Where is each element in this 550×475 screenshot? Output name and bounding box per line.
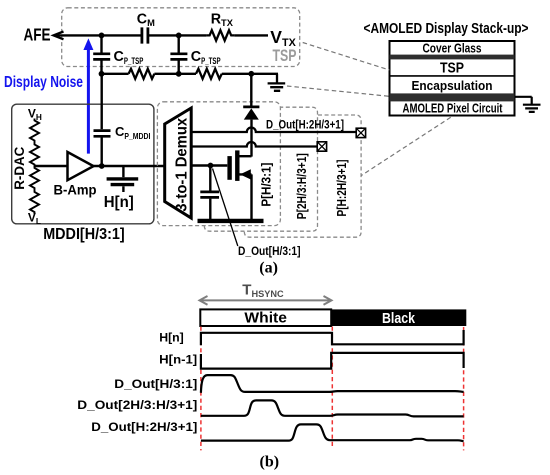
ground G1	[268, 74, 286, 91]
TSP dashed box	[62, 8, 300, 67]
node A (AFE line / C_P_TSP1)	[99, 33, 105, 39]
svg-text:(b): (b)	[260, 453, 280, 470]
svg-text:D_Out[H:2H/3+1]: D_Out[H:2H/3+1]	[91, 420, 197, 434]
dashed link ground to stack	[287, 86, 389, 96]
svg-text:D_Out[H:2H/3+1]: D_Out[H:2H/3+1]	[266, 119, 344, 131]
node C (noise row left)	[99, 71, 105, 77]
wire noise row 2	[154, 73, 196, 75]
svg-text:R-DAC: R-DAC	[12, 146, 27, 189]
bar White	[200, 309, 331, 326]
node D (noise row mid)	[176, 71, 182, 77]
trace D_Out[2H/3:H/3+1]	[201, 400, 464, 416]
capacitor C_P_MDDI	[100, 74, 102, 129]
svg-text:Black: Black	[382, 310, 416, 327]
svg-text:P[H/3:1]: P[H/3:1]	[260, 163, 274, 207]
trace D_Out[H/3:1]	[201, 375, 464, 393]
ground rail	[198, 219, 264, 223]
capacitor C_P_TSP 2	[177, 35, 179, 52]
svg-text:3-to-1 Demux: 3-to-1 Demux	[174, 118, 191, 212]
svg-text:B-Amp: B-Amp	[54, 182, 97, 198]
svg-text:D_Out[H/3:1]: D_Out[H/3:1]	[114, 377, 197, 391]
trace H[n]	[201, 330, 464, 345]
dashed link stack to pixel box	[361, 117, 450, 175]
red timing line 1	[200, 327, 202, 451]
svg-text:TSP: TSP	[440, 61, 464, 77]
MDDI box	[12, 104, 154, 224]
svg-text:D_Out[2H/3:H/3+1]: D_Out[2H/3:H/3+1]	[77, 398, 197, 412]
red timing line 2	[331, 327, 333, 448]
blue noise arrow	[87, 49, 90, 154]
svg-text:<AMOLED Display Stack-up>: <AMOLED Display Stack-up>	[364, 21, 529, 37]
pin X2	[317, 142, 326, 151]
node E (noise row right / diode top)	[248, 71, 254, 77]
wire noise row 3	[222, 73, 278, 75]
dashed box channel 1	[157, 102, 280, 226]
transistor M1	[227, 156, 231, 180]
wire demux out3 (gate line)	[191, 164, 227, 166]
layer separator	[390, 75, 515, 77]
ground G2 (stack)	[515, 97, 541, 112]
dashed box channel 3	[244, 115, 361, 237]
node F (B-Amp out)	[99, 163, 105, 169]
trace D_Out[H:2H/3+1]	[201, 424, 464, 441]
wire noise row 1	[102, 73, 129, 75]
svg-text:Encapsulation: Encapsulation	[412, 79, 493, 93]
resistor R-DAC chain	[30, 119, 39, 167]
capacitor storage	[209, 166, 211, 191]
arrowhead to AFE	[54, 32, 64, 40]
dashed box channel 2	[204, 107, 317, 231]
demux U1 3-to-1	[165, 108, 192, 218]
wire demux out2 with hop	[191, 142, 317, 147]
wire demux out1 with hop	[191, 128, 356, 133]
pointer line D_Out[H/3:1]	[213, 169, 238, 247]
resistor R_TX	[206, 30, 234, 40]
svg-text:P[H:2H/3+1]: P[H:2H/3+1]	[335, 160, 349, 217]
svg-text:MDDI[H/3:1]: MDDI[H/3:1]	[43, 226, 125, 243]
trace H[n-1]	[201, 353, 464, 369]
svg-text:AFE: AFE	[24, 25, 51, 45]
svg-text:Cover Glass: Cover Glass	[423, 41, 482, 55]
resistor ITO 2	[196, 69, 222, 79]
svg-text:H[n]: H[n]	[104, 194, 134, 211]
svg-text:H[n-1]: H[n-1]	[159, 352, 197, 366]
pin X1	[356, 128, 365, 137]
red timing line 3	[463, 327, 465, 450]
capacitor C_M	[142, 27, 148, 43]
resistor ITO 1	[129, 69, 155, 79]
node G (gate line / cap)	[208, 163, 214, 169]
MOS cap H[n]	[122, 166, 124, 177]
op-amp B-Amp	[68, 152, 94, 180]
layer dark 2	[390, 93, 515, 101]
wire B-Amp out	[94, 165, 166, 167]
capacitor C_P_TSP 1	[100, 35, 102, 52]
svg-text:White: White	[244, 310, 287, 327]
svg-text:(a): (a)	[259, 259, 278, 276]
svg-text:P[2H/3:H/3+1]: P[2H/3:H/3+1]	[295, 153, 309, 219]
node B (AFE line / C_P_TSP2)	[176, 33, 182, 39]
wire AFE to C_M	[55, 34, 141, 36]
svg-text:TSP: TSP	[273, 47, 297, 65]
svg-text:D_Out[H/3:1]: D_Out[H/3:1]	[238, 246, 301, 258]
bar Black	[331, 309, 466, 326]
layer dark 1	[390, 55, 515, 60]
svg-text:Display Noise: Display Noise	[4, 74, 83, 91]
svg-text:H[n]: H[n]	[159, 331, 184, 345]
wire DAC tap to B-Amp	[35, 165, 68, 167]
stack-up box	[390, 41, 515, 116]
wire R_TX to V_TX	[234, 34, 268, 36]
svg-text:AMOLED Pixel Circuit: AMOLED Pixel Circuit	[403, 101, 504, 115]
arrow T_HSYNC span	[200, 296, 332, 305]
diode D1	[250, 74, 252, 106]
dashed link TSP box to stack	[303, 43, 390, 71]
wire C_M to R_TX	[149, 34, 206, 36]
